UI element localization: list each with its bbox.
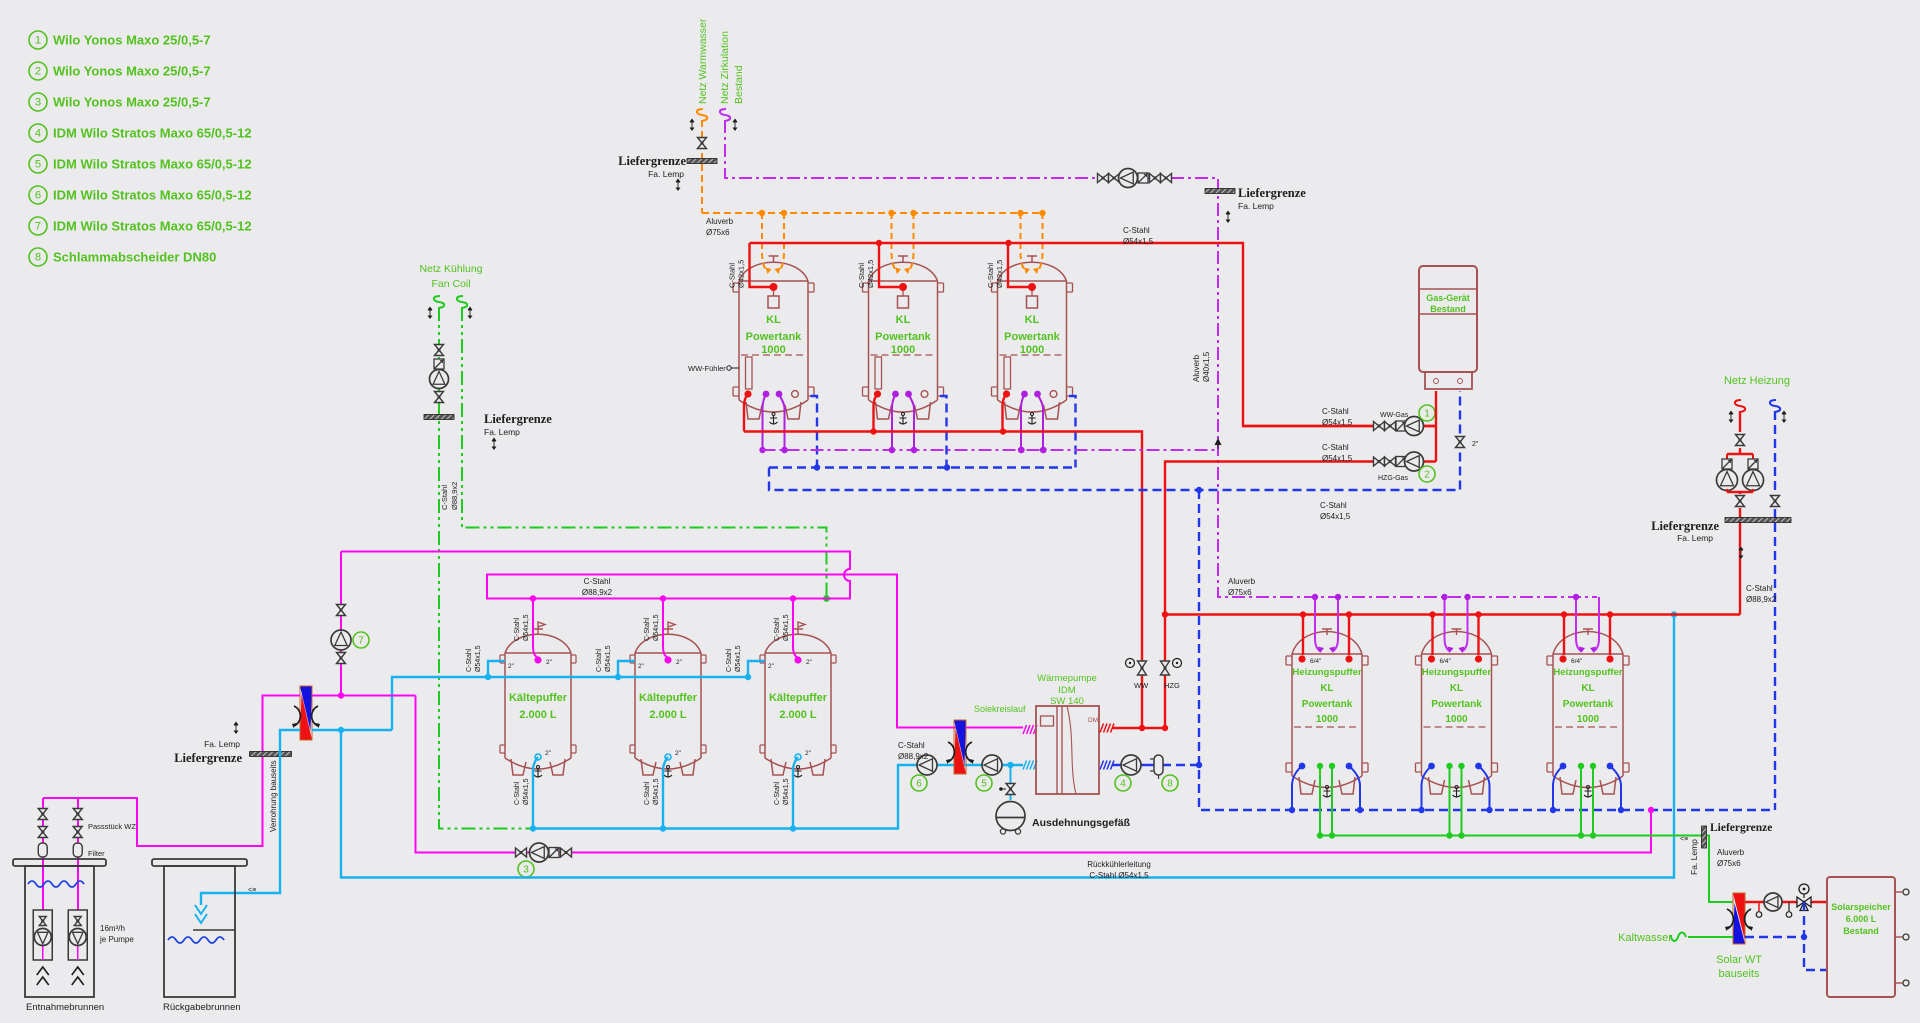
svg-text:Ø54x1,5: Ø54x1,5 [523,614,530,641]
svg-text:Passstück WZ: Passstück WZ [88,822,136,831]
well Rueckgabebrunnen [152,859,247,1013]
valve WW w motor [1126,659,1150,691]
sensor WW tank 3 [1027,291,1038,308]
svg-text:2": 2" [545,750,552,757]
flow arrow Zirk riser [1215,438,1222,449]
valve p7 bottom [337,653,346,664]
svg-text:WW: WW [1134,681,1149,690]
svg-text:IDM Wilo Stratos Maxo 65/0,5-1: IDM Wilo Stratos Maxo 65/0,5-12 [53,188,252,203]
svg-text:C-Stahl: C-Stahl [774,617,781,641]
svg-text:KL: KL [1025,314,1040,326]
svg-text:6: 6 [35,190,41,202]
svg-text:1: 1 [1424,409,1430,420]
svg-text:2": 2" [805,750,812,757]
label C-Stahl O54x1,5 KP top 3 [774,614,790,641]
junction dot red 1165-614 [1162,611,1168,617]
wire magenta pump7 riser [340,552,342,696]
label Waermepumpe IDM SW140 [1037,673,1097,707]
wire blue return to boiler [769,391,1460,490]
svg-text:Ø54x1,5: Ø54x1,5 [653,614,660,641]
wire blue leg tank 2 [940,396,947,468]
svg-text:Rückgabebrunnen: Rückgabebrunnen [163,1002,241,1013]
valve NH bottom [1736,496,1745,507]
wire magenta well pump risers [43,798,78,910]
wire purple dome drops Heizungspuffer 1 [1312,594,1341,653]
valve Zirk 3 [1150,174,1161,183]
junction dots red HP [1139,725,1168,731]
wire red inlet tank 2 [879,243,907,291]
circled 6 [911,775,927,791]
strainer HZG-Gas [1396,457,1406,467]
label WW-Fuehler [688,364,739,373]
svg-text:2": 2" [638,663,645,670]
solar tank stub 1 [1895,889,1909,895]
svg-text:Heizungspuffer: Heizungspuffer [1553,667,1622,678]
svg-text:Kaltwasser: Kaltwasser [1618,932,1672,944]
label Netz Heizung [1724,375,1790,387]
well Entnahmebrunnen [13,859,106,1013]
svg-text:C-Stahl: C-Stahl [898,741,925,750]
svg-text:Fa. Lemp: Fa. Lemp [204,739,240,749]
label Liefergrenze NH [1651,519,1743,559]
wire cyan bottom manifold [533,765,1023,829]
wire red inlet tank 3 [1008,243,1036,291]
svg-text:6/4": 6/4" [1440,658,1452,665]
valve HZG-Gas b [1385,457,1396,466]
label Aluverb O75x6 right [1228,577,1256,597]
wire magenta HX left [43,696,300,847]
wire red WW-Gas line [1243,425,1436,427]
tank Solarspeicher [1827,877,1895,997]
svg-text:Fa. Lemp: Fa. Lemp [484,427,520,437]
label 2in top Kaeltepuffer 1 [546,659,553,666]
svg-text:1000: 1000 [761,344,785,356]
label 2in side Kaeltepuffer 3 [768,663,775,670]
tank Kaeltepuffer 2000L #2 [630,622,706,777]
valve NH blue [1771,496,1780,507]
label C-Stahl O54x1,5 blue [1320,501,1351,521]
delivery limit bar wells [250,752,292,757]
valve p3 a [516,848,527,857]
junction dot blue 1199-490 [1196,487,1202,493]
wire red HZG-Gas line [1165,462,1436,729]
pipe-break Kuehlung a [428,296,445,319]
svg-text:C-Stahl: C-Stahl [1123,226,1150,235]
strainer p3 [549,848,559,858]
svg-text:4: 4 [35,128,41,140]
three-way valve solar [1797,884,1811,911]
svg-text:6.000 L: 6.000 L [1846,914,1877,924]
svg-text:Netz Zirkulation: Netz Zirkulation [719,31,731,104]
svg-text:8: 8 [1167,779,1173,790]
circled 7 [353,632,369,648]
svg-text:KL: KL [1320,683,1333,694]
label Liefergrenze WW [618,154,686,191]
wire green Kuehlung supply [462,307,827,599]
valve Zirk 1 [1098,174,1109,183]
svg-text:3: 3 [523,865,529,876]
svg-text:Liefergrenze: Liefergrenze [174,751,242,765]
drain solar 1 [1756,902,1762,917]
svg-text:3: 3 [35,97,41,109]
svg-text:Bestand: Bestand [1430,304,1466,314]
legend item 1 [29,31,211,49]
svg-text:Aluverb: Aluverb [1192,354,1201,382]
pump 4 [1121,755,1141,775]
svg-text:Aluverb: Aluverb [1228,577,1256,586]
svg-text:C-Stahl: C-Stahl [466,648,473,672]
svg-text:Netz Heizung: Netz Heizung [1724,375,1790,387]
label C-Stahl O42x1,5 tank 3 [986,260,1004,288]
drain solar 2 [1786,902,1792,917]
svg-text:C-Stahl: C-Stahl [1320,501,1347,510]
label C-Stahl O54x1,5 KP bottom 2 [644,778,660,805]
svg-text:Heizungspuffer: Heizungspuffer [1422,667,1491,678]
tank KL Powertank 1000 #1 [733,256,814,424]
valve 2in gas return [1456,437,1479,449]
svg-text:1000: 1000 [1020,344,1044,356]
svg-text:Wilo Yonos Maxo 25/0,5-7: Wilo Yonos Maxo 25/0,5-7 [53,64,211,79]
wire orange WW manifold [702,212,1043,214]
svg-text:Ø75x6: Ø75x6 [706,228,730,237]
svg-text:1000: 1000 [1445,714,1468,725]
svg-text:C-Stahl: C-Stahl [440,485,449,510]
solar tank stub 2 [1895,934,1909,940]
wire cyan long line [341,615,1674,878]
strainer WW-Gas [1396,421,1406,431]
svg-text:C-Stahl: C-Stahl [514,781,521,805]
wire blue NH return [1774,411,1776,810]
label Netz Warmwasser [697,18,709,104]
water line Entnahme [28,881,84,887]
svg-text:4: 4 [1120,779,1126,790]
pump WW-Gas [1405,417,1424,436]
label Liefergrenze Zirk [1226,186,1307,223]
svg-text:KL: KL [1581,683,1594,694]
label Rueckkuehlerleitung [1087,860,1151,880]
svg-text:HZG: HZG [1164,681,1180,690]
svg-text:Wilo Yonos Maxo 25/0,5-7: Wilo Yonos Maxo 25/0,5-7 [53,95,211,110]
junction dot cyan-red [1671,611,1677,617]
label C-Stahl O88,9x2 manifold [582,577,613,597]
wire purple dome drops Heizungspuffer 3 [1573,594,1599,653]
label C-Stahl HZG-Gas [1322,443,1353,463]
label C-Stahl O54x1,5 KP bottom 3 [774,778,790,805]
svg-text:6/4": 6/4" [1310,658,1322,665]
wire red top manifold [750,243,1437,426]
junction dot cyan HX [338,727,344,733]
svg-text:Entnahmebrunnen: Entnahmebrunnen [26,1002,104,1013]
svg-text:Rückkühlerleitung: Rückkühlerleitung [1087,860,1151,869]
svg-text:Liefergrenze: Liefergrenze [1710,822,1772,834]
svg-text:Aluverb: Aluverb [1717,848,1745,857]
svg-text:Liefergrenze: Liefergrenze [618,154,686,168]
svg-text:IDM: IDM [1058,685,1076,696]
svg-text:Powertank: Powertank [1302,699,1353,710]
svg-text:KL: KL [1450,683,1463,694]
label 2in bottom Kaeltepuffer 1 [545,750,552,757]
svg-text:Wärmepumpe: Wärmepumpe [1037,673,1097,684]
circled 1 [1419,405,1435,421]
wire red drops Heizungspuffer 2 [1428,611,1482,662]
port circle tank 3 [1050,391,1057,398]
svg-text:1: 1 [35,35,41,47]
svg-text:Ø40x1,5: Ø40x1,5 [1202,351,1211,382]
label Netz Kuehlung [419,263,482,290]
wire green heating return manifold [1320,836,1733,903]
svg-text:7: 7 [358,636,364,647]
wire cyan bottom outlet 1 [530,754,541,832]
svg-text:Powertank: Powertank [1004,331,1061,343]
svg-text:<≡: <≡ [1680,836,1688,843]
label 2in bottom Kaeltepuffer 2 [675,750,682,757]
svg-text:5: 5 [35,159,41,171]
valve Zirk 2 [1109,174,1120,183]
svg-text:Ø54x1,5: Ø54x1,5 [653,778,660,805]
svg-text:Ø88,9x2: Ø88,9x2 [1746,595,1777,604]
svg-text:Fan Coil: Fan Coil [431,278,470,290]
wire purple dome drops Heizungspuffer 2 [1441,594,1470,653]
circled 4 [1115,775,1131,791]
svg-text:Powertank: Powertank [875,331,932,343]
svg-text:Ø75x6: Ø75x6 [1228,588,1252,597]
label C-Stahl O54x1,5 KP top 1 [514,614,530,641]
svg-text:Netz Warmwasser: Netz Warmwasser [697,18,709,104]
wire cyan bottom outlet 3 [790,754,801,832]
wire magenta drop Kaeltepuffer 2 [660,595,672,663]
svg-text:Netz Kühlung: Netz Kühlung [419,263,482,275]
label C-Stahl O54x1,5 KP riser 1 [466,645,482,672]
label Liefergrenze Kuehlung [484,412,552,450]
svg-text:Ø42x1,5: Ø42x1,5 [737,260,746,288]
junction dots red bottom [870,428,1006,434]
label Kaltwasser [1618,932,1672,944]
svg-text:C-Stahl: C-Stahl [726,648,733,672]
svg-text:16m³/h: 16m³/h [100,924,125,933]
label 16m3h je Pumpe [99,924,134,944]
circled 8 [1162,775,1178,791]
svg-text:2": 2" [675,750,682,757]
svg-text:Ø54x1,5: Ø54x1,5 [1322,418,1353,427]
svg-text:Ø54x1,5: Ø54x1,5 [735,645,742,672]
svg-text:6/4": 6/4" [1571,658,1583,665]
label Bestand [733,65,745,104]
valve Kuehlung [435,345,444,356]
valve p7 top [337,605,346,616]
legend item 4 [29,124,252,142]
svg-text:2": 2" [768,663,775,670]
svg-text:bauseits: bauseits [1719,968,1760,980]
svg-text:Ausdehnungsgefäß: Ausdehnungsgefäß [1032,817,1131,829]
svg-text:1000: 1000 [1316,714,1339,725]
label Fa Lemp solar [1689,839,1699,875]
circled 5 [976,775,992,791]
label Passstueck WZ [88,822,136,831]
wire orange Netz Warmwasser riser [701,120,703,213]
water line Rueckgabe [168,937,224,943]
pump HZG-Gas [1405,452,1424,471]
svg-text:Bestand: Bestand [1843,926,1879,936]
wire red gas riser [1435,391,1437,462]
port circle tank 1 [792,391,799,398]
wire magenta HX to riser [312,695,416,697]
wire blue ports Heizungspuffer 2 [1418,763,1492,814]
pump 7 [331,630,351,650]
label C-Stahl O54x1,5 KP top 2 [644,614,660,641]
svg-text:KL: KL [896,314,911,326]
label Filter [88,849,105,858]
svg-text:C-Stahl: C-Stahl [1322,407,1349,416]
valve Netz Warmwasser [698,138,707,149]
svg-text:Ø54x1,5: Ø54x1,5 [523,778,530,805]
tank Kaeltepuffer 2000L #3 [760,622,836,777]
junction dot blue solar [1801,934,1807,940]
svg-text:5: 5 [981,779,987,790]
svg-text:8: 8 [35,252,41,264]
valve expansion [999,784,1015,795]
well pump 1 [33,910,52,985]
svg-text:Ø42x1,5: Ø42x1,5 [995,260,1004,288]
twin pump group Netz Heizung [1717,448,1764,494]
legend item 3 [29,93,211,111]
svg-text:1000: 1000 [1577,714,1600,725]
svg-text:WW-Gas: WW-Gas [1380,412,1409,419]
svg-text:Heizungspuffer: Heizungspuffer [1292,667,1361,678]
pump Kuehlung [430,370,449,389]
svg-text:6: 6 [916,779,922,790]
tank Heizungspuffer KL Powertank 1000 #2 [1416,629,1498,797]
well pump 2 riser fittings [73,809,82,858]
svg-text:Fa. Lemp: Fa. Lemp [1238,201,1274,211]
wire purple Zirkulation main [725,120,1597,597]
wire orange drop into tank 2 [888,210,916,274]
junction dot blue 1199-765 [1196,762,1202,768]
pump solar [1764,893,1782,911]
heat exchanger Solar WT [1725,893,1753,944]
svg-text:Ø88,9x2: Ø88,9x2 [450,482,459,510]
wire green ports Heizungspuffer 2 [1446,763,1464,839]
label C-Stahl O88,9x2 p6 [898,741,929,761]
svg-text:Ø54x1,5: Ø54x1,5 [605,645,612,672]
hatch cyan HP inlet [1023,761,1037,770]
svg-text:Ø54x1,5: Ø54x1,5 [783,778,790,805]
svg-text:2.000 L: 2.000 L [779,709,817,721]
hatch blue HP outlet [1100,761,1114,770]
svg-text:2": 2" [806,659,813,666]
well pump 2 [68,910,87,985]
svg-text:Ø42x1,5: Ø42x1,5 [866,260,875,288]
label Verrohrung bauseits [269,760,278,832]
strainer Zirk [1138,173,1148,183]
wire red HP supply [1112,727,1165,729]
label 2in side Kaeltepuffer 1 [508,663,515,670]
wire red outlet tank 2 [874,390,882,431]
heat exchanger Solekreislauf [946,720,974,774]
svg-text:Schlammabscheider DN80: Schlammabscheider DN80 [53,250,216,265]
valve WW-Gas a [1374,422,1385,431]
wire blue HP return [1112,764,1199,766]
label 6-4in Heizungspuffer 1 [1310,658,1322,665]
pump 6 [917,755,937,775]
pump 5 [982,755,1002,775]
wire red Netz Heizung riser [1739,411,1741,432]
svg-text:C-Stahl: C-Stahl [644,617,651,641]
wire magenta drop Kaeltepuffer 1 [530,595,542,663]
svg-text:Ø54x1,5: Ø54x1,5 [783,614,790,641]
svg-text:Fa. Lemp: Fa. Lemp [648,169,684,179]
valve WW-Gas b [1385,422,1396,431]
label WW-Gas [1380,412,1409,419]
svg-text:2.000 L: 2.000 L [649,709,687,721]
svg-text:Kältepuffer: Kältepuffer [639,692,698,704]
wire red outlet tank 3 [1003,390,1011,431]
wire red drops Heizungspuffer 3 [1559,611,1613,662]
valve HZG-Gas a [1374,457,1385,466]
svg-text:Ø88,9x2: Ø88,9x2 [582,588,613,597]
svg-text:Bestand: Bestand [733,65,745,104]
wire orange drop into tank 3 [1017,210,1045,274]
valve Zirk 4 [1161,174,1172,183]
label Aluverb O75x6 top [706,217,734,237]
wire violet ports tank 2 [889,391,917,454]
svg-text:Liefergrenze: Liefergrenze [484,412,552,426]
pipe-break Netz Warmwasser [690,109,708,131]
pipe-break Kaltwasser [1671,933,1686,941]
svg-text:2.000 L: 2.000 L [519,709,557,721]
svg-text:2: 2 [35,66,41,78]
wire green ports Heizungspuffer 1 [1317,763,1335,839]
wire blue leg tank 1 [811,396,818,468]
tank Heizungspuffer KL Powertank 1000 #1 [1286,629,1368,797]
svg-text:C-Stahl: C-Stahl [986,263,995,288]
solar tank stub 3 [1895,980,1909,986]
tank KL Powertank 1000 #2 [863,256,944,424]
expansion vessel Ausdehnungsgefaess [996,802,1025,835]
circled 3 [518,861,534,877]
pipe-break Kuehlung b [457,296,473,319]
svg-text:Ø54x1,5: Ø54x1,5 [475,645,482,672]
svg-text:C-Stahl: C-Stahl [1746,584,1773,593]
legend item 2 [29,62,211,80]
wire magenta long cooling line [416,696,1652,853]
svg-text:WW-Fühler: WW-Fühler [688,364,726,373]
wire cyan shoulder inlet 1 [485,661,505,680]
junction dot magenta-blue [1648,807,1654,813]
label HZG-Gas [1378,475,1408,482]
wire cyan HX left [201,730,300,905]
junction dot green-magenta [823,595,830,602]
junction dots blue manifold [814,464,950,470]
svg-text:Solarspeicher: Solarspeicher [1831,902,1891,912]
junction dots purple manifold [781,447,1046,453]
svg-text:Wilo Yonos Maxo 25/0,5-7: Wilo Yonos Maxo 25/0,5-7 [53,33,211,48]
heat exchanger wells [292,686,320,740]
label 2in side Kaeltepuffer 2 [638,663,645,670]
label 2in top Kaeltepuffer 3 [806,659,813,666]
wire blue leg tank 3 [1069,396,1076,468]
valve p3 b [561,848,572,857]
svg-text:Ø75x6: Ø75x6 [1717,859,1741,868]
svg-text:Ø54x1,5: Ø54x1,5 [1123,237,1154,246]
label Aluverb solar [1717,848,1745,868]
wire green Kuehlung return [439,307,533,829]
svg-text:C-Stahl: C-Stahl [857,263,866,288]
svg-text:Gas-Gerät: Gas-Gerät [1426,293,1470,303]
delivery limit bar Kuehlung [424,415,454,420]
junction dots red manifold [876,240,1012,246]
junction dot magenta p7 [338,692,344,698]
label C-Stahl O54x1,5 top [1123,226,1154,246]
